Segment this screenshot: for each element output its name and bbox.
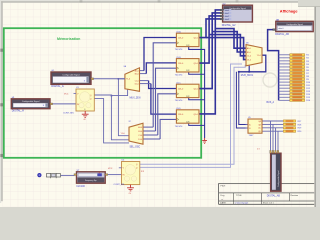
svg-text:C1-0: C1-0 <box>138 135 142 137</box>
svg-text:2 3: 2 3 <box>257 149 260 151</box>
svg-text:TITLE: TITLE <box>236 195 242 197</box>
svg-text:1D1-0: 1D1-0 <box>178 63 183 65</box>
svg-text:Frequency Sqr: Frequency Sqr <box>85 180 97 182</box>
svg-text:Configurable Signal: Configurable Signal <box>229 7 246 10</box>
svg-text:A1-0: A1-0 <box>135 69 139 72</box>
svg-text:Configurable Signal: Configurable Signal <box>62 74 80 76</box>
svg-text:D1-0: D1-0 <box>138 139 142 141</box>
svg-text:Y1-0: Y1-0 <box>121 133 125 135</box>
svg-text:Q1-0: Q1-0 <box>194 114 198 116</box>
svg-text:MUX_8NO1: MUX_8NO1 <box>241 75 254 77</box>
svg-text:DIGITAL_G: DIGITAL_G <box>51 85 63 88</box>
svg-text:1D1-0: 1D1-0 <box>178 38 183 40</box>
svg-text:Y1-0: Y1-0 <box>126 79 130 81</box>
svg-text:data3: data3 <box>225 18 229 21</box>
svg-text:Configurable Signal: Configurable Signal <box>286 23 303 26</box>
svg-text:D1-0: D1-0 <box>135 83 139 85</box>
svg-text:DIGITAL_H: DIGITAL_H <box>12 109 24 112</box>
svg-text:data0: data0 <box>225 9 229 12</box>
svg-text:74LS74: 74LS74 <box>175 100 183 102</box>
svg-text:A1-0: A1-0 <box>247 47 251 50</box>
svg-text:B1-0: B1-0 <box>135 73 139 75</box>
svg-text:U1:B: U1:B <box>176 57 181 59</box>
svg-text:DIGITAL_AB: DIGITAL_AB <box>267 194 281 197</box>
svg-text:A1-0: A1-0 <box>138 126 142 129</box>
svg-text:Q1-0: Q1-0 <box>194 63 198 65</box>
svg-text:Configurable Signal: Configurable Signal <box>277 170 280 187</box>
svg-text:1D1-0: 1D1-0 <box>178 114 183 116</box>
svg-text:DIGITAL_AB: DIGITAL_AB <box>275 33 289 36</box>
svg-text:SEL_OSC: SEL_OSC <box>130 146 141 148</box>
svg-text:Revision: Revision <box>291 195 299 197</box>
svg-text:Configurable Signal: Configurable Signal <box>22 101 40 103</box>
svg-text:CONT_MS: CONT_MS <box>63 112 74 114</box>
svg-text:D1-0: D1-0 <box>247 59 251 61</box>
svg-text:Sheet 1 of 1: Sheet 1 of 1 <box>263 201 275 204</box>
svg-text:C:\Users\projet: C:\Users\projet <box>235 202 249 205</box>
svg-text:U1:C: U1:C <box>176 83 181 85</box>
svg-text:●: ● <box>222 199 223 201</box>
svg-text:data2: data2 <box>225 15 229 18</box>
svg-text:CONT_MS: CONT_MS <box>114 184 125 186</box>
svg-text:U1:A: U1:A <box>176 31 181 34</box>
svg-text:74LS74: 74LS74 <box>175 49 183 51</box>
svg-text:FILE:: FILE: <box>221 186 227 188</box>
svg-text:B1-0: B1-0 <box>138 131 142 133</box>
svg-text:C1-0: C1-0 <box>247 56 251 58</box>
svg-text:74LS74: 74LS74 <box>175 126 183 128</box>
svg-text:data·0: data·0 <box>278 27 283 30</box>
svg-text:Y1-0: Y1-0 <box>257 55 261 57</box>
svg-text:data1: data1 <box>225 12 229 15</box>
svg-text:B1-0: B1-0 <box>247 52 251 54</box>
svg-text:7447: 7447 <box>249 135 255 137</box>
svg-text:Affichage: Affichage <box>280 8 299 13</box>
svg-text:DATE:: DATE: <box>220 201 227 204</box>
svg-text:74LS74: 74LS74 <box>175 75 183 77</box>
svg-text:BUS_A: BUS_A <box>267 101 275 104</box>
svg-text:Mémorisation: Mémorisation <box>57 37 80 41</box>
svg-text:DIGITAL_G2: DIGITAL_G2 <box>222 24 236 27</box>
svg-text:U1:D: U1:D <box>176 108 181 110</box>
svg-text:VCC: VCC <box>64 93 69 95</box>
svg-text:MUX_2EN: MUX_2EN <box>130 98 141 100</box>
svg-text:CLK100: CLK100 <box>76 185 85 188</box>
svg-text:VCC: VCC <box>108 168 113 170</box>
svg-text:Q1-0: Q1-0 <box>194 89 198 91</box>
svg-text:1D1-0: 1D1-0 <box>178 89 183 91</box>
svg-text:C1-0: C1-0 <box>135 80 139 82</box>
svg-text:Q1-0: Q1-0 <box>194 38 198 40</box>
